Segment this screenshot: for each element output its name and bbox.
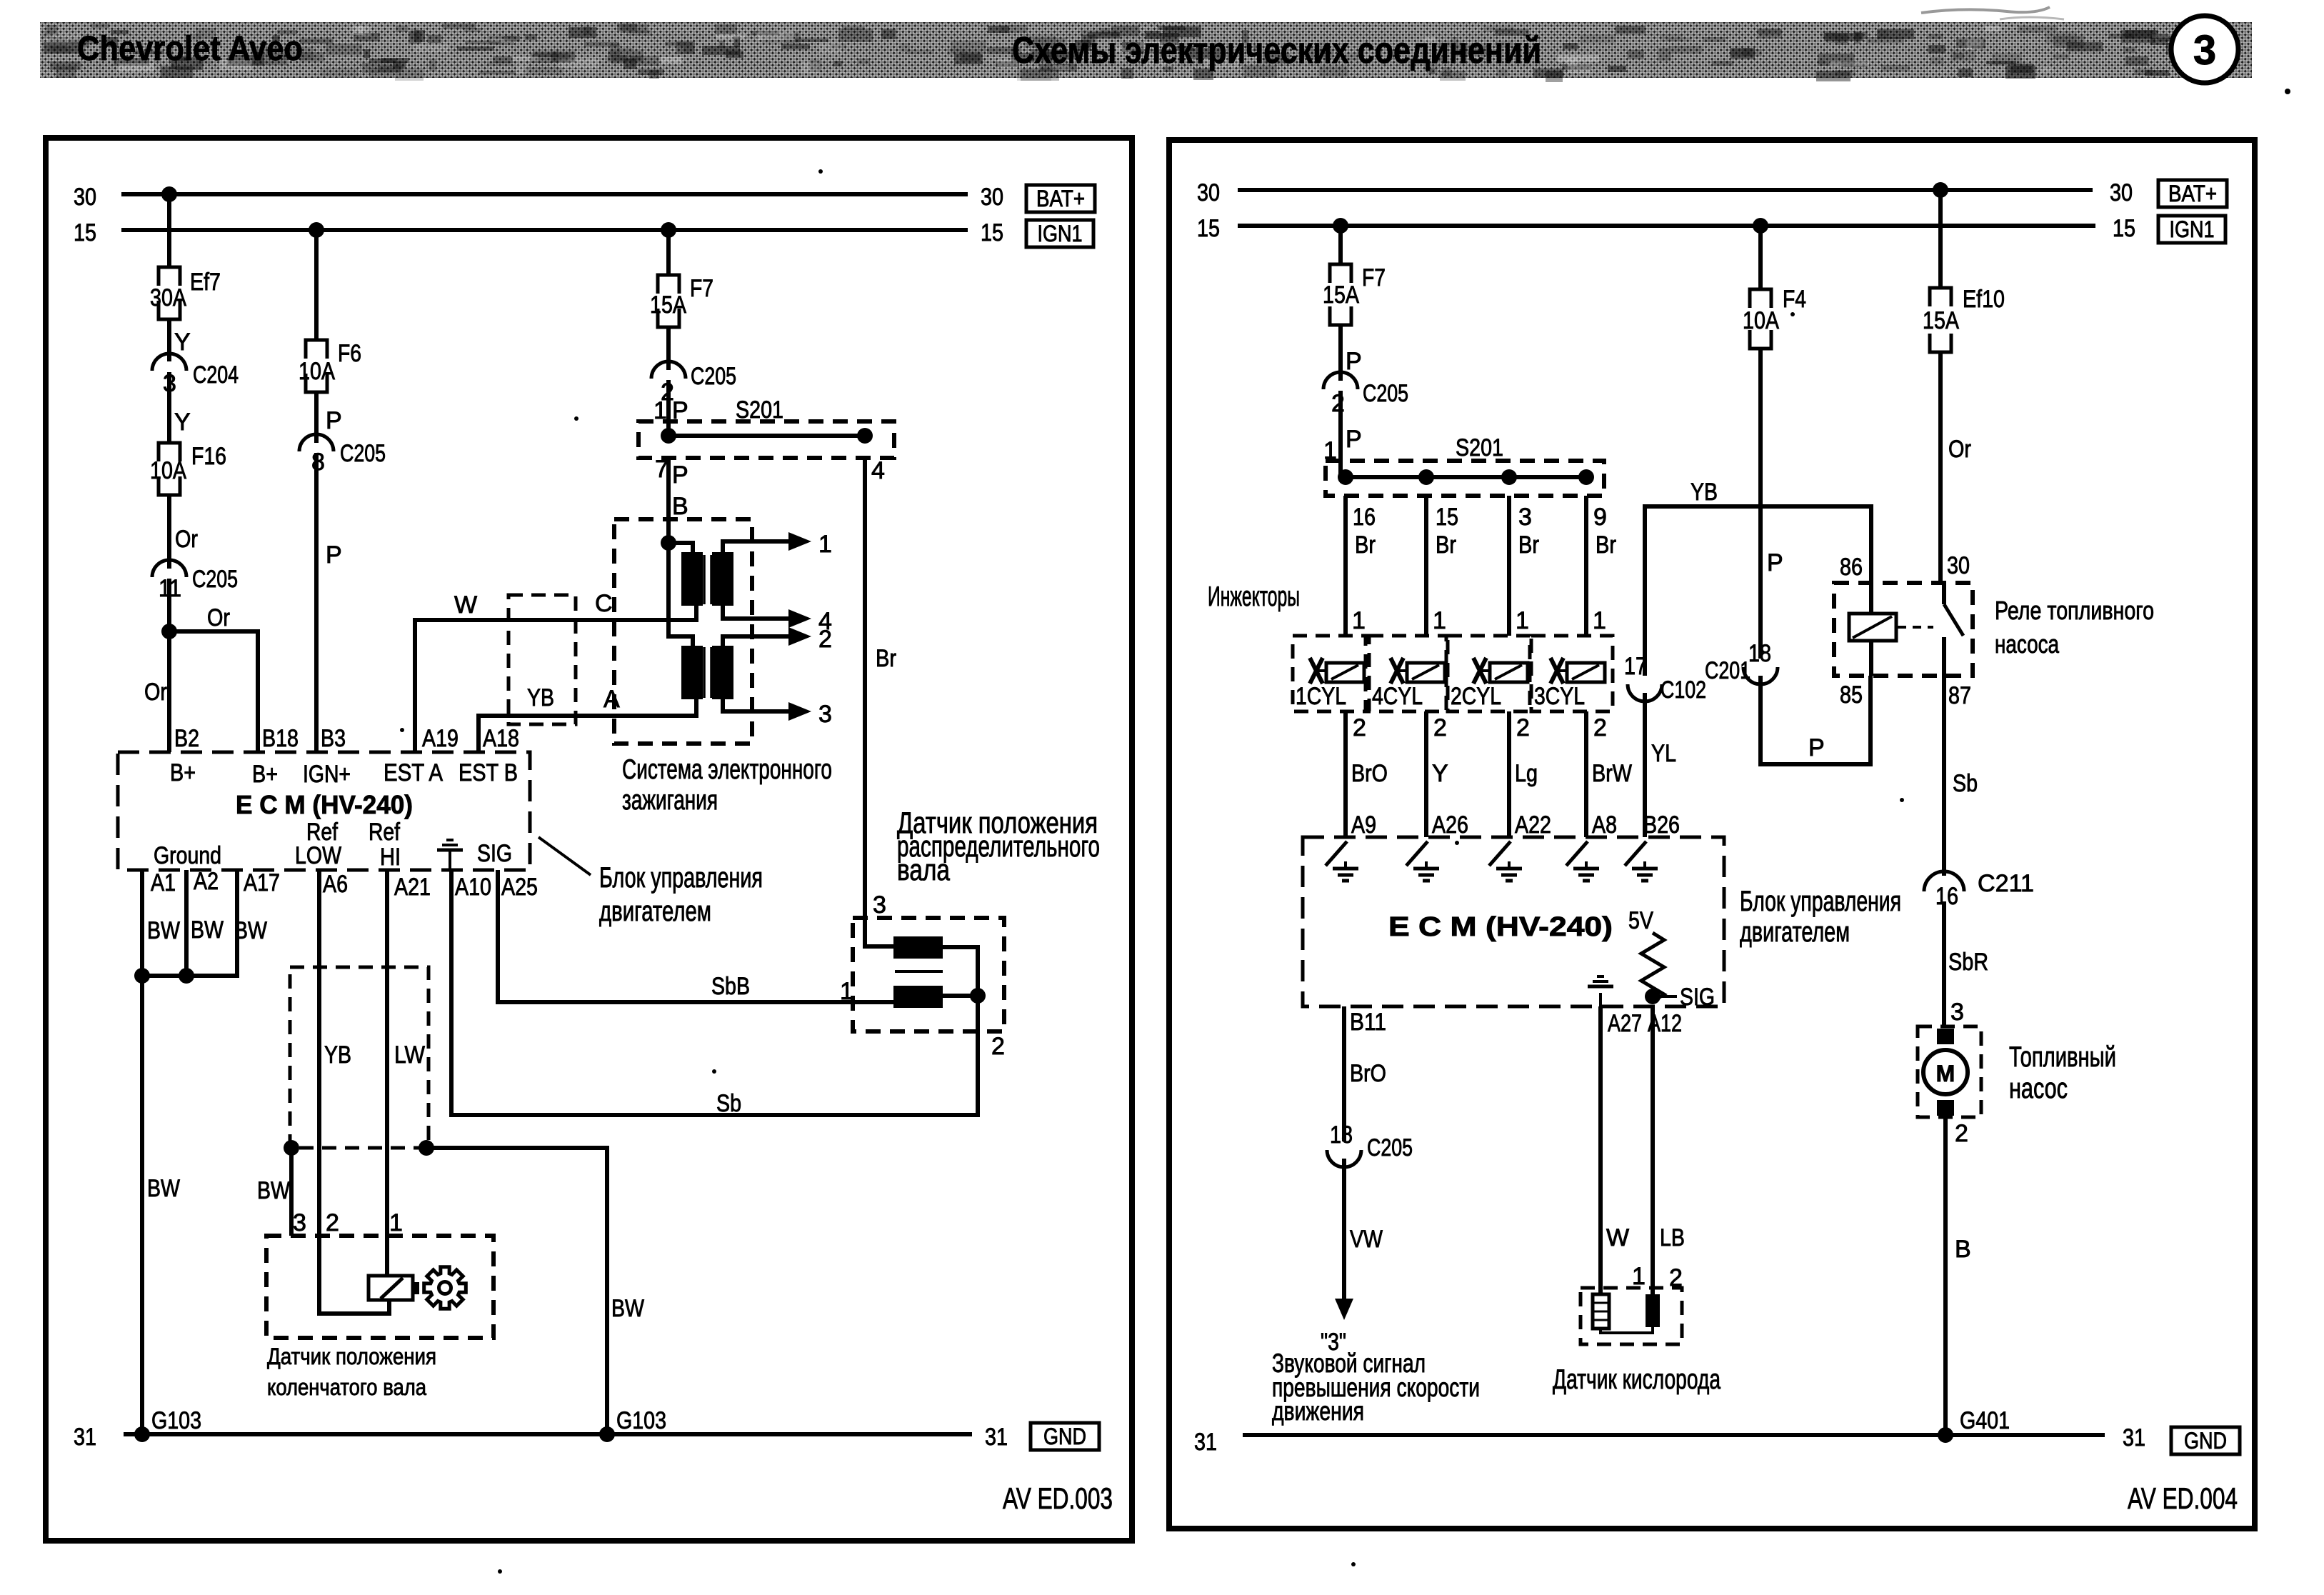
wire P C205 to splice S201 [653,380,688,436]
wire P fuse F6 to C205 [316,392,342,443]
svg-text:3: 3 [293,1209,306,1236]
wire BrO injector 1CYL to ECM A9 [1346,711,1388,839]
ECM driver ground switch A22 [1489,841,1522,881]
wire Br S201 to injector 3CYL [1586,496,1616,636]
svg-text:BW: BW [191,916,224,944]
ECM (HV-240) block (right) [1303,837,1724,1006]
svg-text:B+: B+ [170,759,196,786]
ECM (HV-240) block (left) [118,752,530,871]
svg-text:EST A: EST A [384,759,443,786]
svg-text:1: 1 [1433,607,1446,634]
svg-text:Lg: Lg [1515,760,1538,787]
fuse F7 15A (right) [1323,264,1386,325]
svg-text:3CYL: 3CYL [1534,683,1585,710]
wire Br S201 to injector 4CYL [1426,496,1456,636]
wire P C205 to ECM B3 [316,453,342,752]
svg-text:C205: C205 [192,566,238,593]
wire B fuel pump pin 2 to G401 [1945,1117,1971,1435]
svg-text:A9: A9 [1351,811,1376,839]
svg-text:18: 18 [1330,1121,1353,1149]
bus 31 (left) [74,1424,1008,1451]
svg-text:A21: A21 [394,874,431,901]
wire SbB ECM A25 to camshaft sensor pin 1 [498,870,893,1005]
svg-text:LW: LW [394,1041,425,1069]
fuel pump relay switch [1898,583,1963,676]
injector 2CYL [1448,636,1530,711]
connector C205 pin 11 [152,560,238,602]
svg-text:Or: Or [175,526,198,553]
svg-text:2CYL: 2CYL [1451,683,1501,710]
node IGN1 (right) [2158,216,2225,243]
svg-text:A27: A27 [1608,1010,1642,1037]
fuse F4 10A [1743,286,1806,349]
header bar [40,7,2252,82]
connector C205 pin 2 (right) [1323,372,1408,417]
wire B S201-7 to ignition coil [668,458,688,543]
svg-text:VW: VW [1350,1226,1383,1253]
svg-text:30: 30 [981,184,1003,211]
svg-text:Датчик кислорода: Датчик кислорода [1553,1364,1721,1395]
svg-text:двигателем: двигателем [1740,916,1850,948]
svg-text:SIG: SIG [1680,984,1715,1011]
svg-text:SIG: SIG [477,840,512,867]
svg-text:87: 87 [1948,682,1971,709]
caption: Реле топливного насоса [1995,596,2154,659]
wire Br S201-4 to camshaft sensor pin 3 [865,458,896,946]
svg-text:S201: S201 [736,396,783,424]
svg-text:B26: B26 [1643,811,1680,839]
svg-text:YB: YB [1691,479,1718,506]
label AV ED.003 [1003,1481,1113,1515]
svg-text:31: 31 [985,1424,1008,1451]
junction node (Or split) [161,624,177,639]
svg-text:3: 3 [2193,27,2216,74]
svg-text:Y: Y [174,329,191,356]
crank position sensor [266,1209,494,1338]
svg-text:P: P [1808,734,1825,761]
wire P fuse F4 to C201 [1760,349,1783,659]
svg-text:LB: LB [1660,1224,1685,1251]
wire Or junction to ECM B2 [144,631,169,752]
svg-text:5V: 5V [1628,907,1653,934]
svg-text:Or: Or [1948,436,1971,463]
svg-text:F7: F7 [1362,264,1386,291]
svg-text:Br: Br [1355,531,1376,559]
svg-text:Y: Y [174,409,191,436]
svg-text:C201: C201 [1705,657,1750,684]
wire Br S201 to injector 2CYL [1509,496,1539,636]
svg-text:10A: 10A [1743,307,1779,334]
pointer line to ECM caption (left) [539,837,591,875]
svg-text:15: 15 [1436,504,1458,531]
ECM pin labels top (left) [170,725,519,788]
svg-text:A6: A6 [323,871,348,898]
shield box crank sensor wires [284,967,434,1156]
ECM pin labels bottom (left) [147,868,538,944]
svg-text:Ef7: Ef7 [190,269,221,296]
wire Y fuse Ef7 to C204 [169,319,191,361]
svg-text:Ref: Ref [369,819,400,846]
svg-text:2: 2 [1331,390,1345,417]
svg-text:1: 1 [840,978,853,1005]
svg-text:IGN1: IGN1 [2170,216,2215,242]
svg-text:C211: C211 [1978,870,2034,897]
caption: Топливный насос [2009,1041,2116,1104]
wire bus15 to fuse F7 (right) [1333,218,1348,264]
svg-text:AV ED.004: AV ED.004 [2128,1481,2238,1515]
svg-text:BrO: BrO [1350,1060,1386,1087]
wire A ECM A18 (EST B) to coil [479,686,696,752]
wire YL ECM B26 to C102 [1643,693,1680,839]
svg-text:IGN+: IGN+ [303,761,351,788]
ECM driver ground switch B26 [1625,841,1658,881]
fuse F6 10A [299,340,361,392]
svg-text:F16: F16 [191,443,226,470]
ECM ground symbol (right) [1588,976,1613,1006]
svg-text:насос: насос [2009,1073,2068,1104]
svg-text:85: 85 [1840,681,1863,709]
svg-text:YB: YB [324,1041,351,1069]
fuse F16 10A [150,443,226,495]
connector C205 pin 18 [1327,1121,1413,1167]
svg-text:A19: A19 [422,725,459,752]
caption: Система электронного зажигания [622,754,832,816]
svg-text:GND: GND [1043,1424,1086,1449]
fuse Ef10 15A [1923,286,2005,352]
wire Or fuse F16 to C205 [169,495,198,569]
svg-text:Br: Br [1596,531,1616,559]
wire Lg injector 2CYL to ECM A22 [1509,711,1551,839]
injector 3CYL [1531,636,1613,711]
svg-text:C205: C205 [340,440,386,467]
svg-text:3: 3 [873,891,886,919]
svg-text:2: 2 [1516,714,1530,741]
svg-text:1CYL: 1CYL [1296,683,1346,710]
bus 15 (right) [1197,215,2135,242]
ECM driver ground switch A8 [1566,841,1599,881]
wire W ECM A27 to oxygen sensor pin 1 [1601,1006,1646,1294]
svg-text:GND: GND [2184,1428,2227,1454]
svg-text:9: 9 [1593,504,1607,531]
bus 15 (left) [74,219,1003,246]
svg-text:31: 31 [74,1424,96,1451]
wire BW ECM A1 to G103 [142,870,180,1434]
svg-text:G103: G103 [616,1407,666,1434]
svg-text:C: C [595,590,613,617]
svg-text:Схемы электрических соединений: Схемы электрических соединений [1012,30,1541,71]
fuse F7 15A [650,275,713,327]
caption: Блок управления двигателем (right) [1740,886,1901,948]
svg-text:15: 15 [1197,215,1220,242]
svg-text:2: 2 [818,626,832,653]
svg-text:YB: YB [527,684,554,711]
wire bus15 to fuse F7 [661,222,676,275]
svg-text:Ef10: Ef10 [1963,286,2005,313]
svg-text:Or: Or [144,679,167,706]
svg-text:движения: движения [1272,1396,1364,1426]
caption: Датчик кислорода [1553,1364,1721,1395]
svg-text:A2: A2 [194,868,219,895]
svg-text:A: A [603,686,620,713]
ignition coil unit cyl 2-3 [668,543,733,699]
svg-text:LOW: LOW [295,842,341,869]
svg-text:A22: A22 [1515,811,1551,839]
svg-text:Br: Br [1518,531,1539,559]
node GND (right) [2171,1427,2240,1454]
svg-text:30: 30 [2110,179,2133,206]
wire BW ECM A17 to ground bundle [134,870,237,984]
svg-text:SbR: SbR [1948,949,1988,976]
svg-text:SbB: SbB [711,973,750,1000]
svg-text:коленчатого вала: коленчатого вала [267,1374,426,1400]
svg-text:F7: F7 [690,275,713,302]
svg-text:P: P [1767,549,1783,576]
svg-text:C205: C205 [691,363,736,390]
svg-text:10A: 10A [299,358,335,385]
svg-text:P: P [326,407,342,434]
svg-text:A26: A26 [1432,811,1468,839]
svg-text:YL: YL [1651,740,1676,767]
spark output 4 [723,606,832,635]
svg-text:W: W [454,591,477,619]
svg-text:B2: B2 [174,725,199,752]
node BAT+ (left) [1026,185,1095,212]
svg-text:2: 2 [326,1209,339,1236]
wire YB C102 to fuel pump relay pin 86 [1645,479,1871,676]
svg-text:Инжекторы: Инжекторы [1208,581,1300,612]
svg-text:P: P [1346,426,1362,453]
wire bus30 to fuse Ef7 [161,186,177,267]
svg-text:Ground: Ground [154,842,221,869]
svg-text:A25: A25 [501,874,538,901]
label AV ED.004 [2128,1481,2238,1515]
wire LW ECM A21 to crank sensor pin 1 [387,870,425,1276]
wire BW shield to crank sensor pin 3 [257,1148,291,1236]
wire bus15 to fuse F4 [1753,218,1768,289]
wire BW shield to G103 (right leg) [426,1148,644,1434]
right diagram frame [1169,140,2255,1529]
header title left: Chevrolet Aveo [77,30,303,68]
svg-text:2: 2 [991,1033,1005,1060]
svg-text:15A: 15A [650,291,686,319]
svg-text:B18: B18 [262,725,299,752]
svg-text:15: 15 [981,219,1003,246]
wire Y C204 to fuse F16 [169,372,191,443]
node IGN1 (left) [1026,220,1093,247]
camshaft position sensor [853,891,1004,1031]
left diagram frame [46,138,1132,1541]
svg-text:F6: F6 [338,340,361,367]
svg-text:Y: Y [1432,760,1448,787]
svg-text:B+: B+ [252,761,278,788]
caption: Инжекторы [1208,581,1300,612]
svg-text:1: 1 [1632,1263,1646,1290]
svg-text:насоса: насоса [1995,629,2060,659]
ECM driver ground switch A26 [1406,841,1439,881]
svg-text:AV ED.003: AV ED.003 [1003,1481,1113,1515]
ignition coil assembly box [614,519,752,744]
svg-text:HI: HI [380,844,401,871]
wire Or branch to ECM B18 [169,604,258,752]
wire P C201 to fuel pump relay pin 85 [1760,676,1870,764]
svg-text:C204: C204 [193,361,239,389]
svg-text:4CYL: 4CYL [1372,683,1423,710]
bus 31 (right) [1194,1424,2145,1456]
svg-text:вала: вала [897,853,950,886]
svg-text:2: 2 [1433,714,1447,741]
connector C211 pin 16 [1924,870,2034,910]
svg-text:16: 16 [1935,883,1958,910]
svg-text:3: 3 [1518,504,1532,531]
svg-text:Br: Br [1436,531,1456,559]
oxygen sensor [1581,1288,1682,1344]
svg-text:P: P [1346,348,1362,375]
node GND (left) [1031,1423,1099,1450]
svg-text:2: 2 [1593,714,1607,741]
svg-text:E C M (HV-240): E C M (HV-240) [1388,912,1613,942]
svg-text:BW: BW [147,917,180,944]
page number circle 3 [2171,16,2238,83]
svg-text:W: W [1606,1224,1629,1251]
svg-text:C205: C205 [1367,1134,1413,1161]
svg-text:S201: S201 [1456,434,1503,461]
header title center: Схемы электрических соединений [1012,30,1541,71]
svg-text:31: 31 [2123,1424,2145,1451]
wire LB ECM A12 to oxygen sensor pin 2 [1648,1006,1685,1294]
caption: Датчик положения распределительного вала [897,806,1100,886]
caption: Звуковой сигнал превышения скорости движения [1272,1349,1480,1426]
svg-text:C205: C205 [1363,380,1408,407]
svg-text:Датчик положения: Датчик положения [267,1344,436,1369]
svg-text:1: 1 [1352,607,1366,634]
svg-text:Sb: Sb [1953,770,1978,797]
wire Sb relay pin 87 to C211 [1944,676,1978,876]
svg-text:10A: 10A [150,457,186,484]
splice S201 (right) [1326,434,1607,531]
wire BrO ECM B11 to C205-18 [1344,1006,1386,1141]
connector C102 pin 17 [1624,653,1706,704]
svg-text:A1: A1 [151,869,176,896]
caption: Датчик положения коленчатого вала [267,1344,436,1400]
svg-text:A18: A18 [483,725,519,752]
ground node G401 [1938,1407,2010,1443]
wire Or C205 to junction [167,579,171,631]
svg-text:2: 2 [1353,714,1366,741]
svg-text:M: M [1936,1061,1955,1086]
ECM ground symbol (left) [437,840,463,869]
caption: Блок управления двигателем (left) [599,862,763,927]
svg-text:BW: BW [257,1177,290,1204]
svg-text:BW: BW [147,1175,180,1202]
svg-text:A10: A10 [455,874,491,901]
wire VW to overspeed buzzer [1321,1159,1383,1356]
spark output 2 [723,626,832,653]
svg-text:2: 2 [1955,1120,1968,1147]
svg-text:18: 18 [1748,640,1771,667]
svg-text:Sb: Sb [716,1090,741,1117]
svg-text:86: 86 [1840,554,1863,581]
svg-text:15: 15 [2113,215,2135,242]
svg-text:G103: G103 [151,1407,201,1434]
svg-text:Реле топливного: Реле топливного [1995,596,2154,625]
ground node G103 (left) [134,1407,201,1442]
svg-text:B11: B11 [1350,1009,1386,1036]
svg-text:E C M (HV-240): E C M (HV-240) [236,790,413,819]
svg-text:B3: B3 [321,725,346,752]
svg-text:15A: 15A [1923,307,1959,334]
svg-text:1: 1 [818,531,832,558]
svg-text:31: 31 [1194,1429,1217,1456]
svg-text:P: P [326,541,342,569]
svg-text:3: 3 [1950,999,1964,1026]
fuel pump relay coil [1849,583,1896,676]
svg-text:Блок управления: Блок управления [599,862,763,894]
wire BrW injector 3CYL to ECM A8 [1586,711,1632,839]
wire W ECM A19 (EST A) to coil [415,590,696,752]
fuel pump motor [1918,1026,1981,1117]
ground node G103 (second) [599,1407,666,1442]
wire P fuse F7 to C205 (right) [1341,325,1362,381]
splice S201 (left) [638,396,894,489]
crank sensor gear icon [424,1267,466,1309]
svg-text:16: 16 [1353,504,1376,531]
ECM internal resistor 5V [1641,933,1664,1001]
svg-text:C102: C102 [1661,676,1706,704]
wire Sb camshaft sensor pin 2 to ECM A10 [451,870,1005,1117]
svg-text:A8: A8 [1592,811,1617,839]
wire Y injector 4CYL to ECM A26 [1426,711,1468,839]
svg-text:1: 1 [1516,607,1529,634]
svg-text:A17: A17 [244,869,280,896]
svg-text:1: 1 [1593,607,1606,634]
connector C205 pin 8 [299,434,386,476]
svg-text:Br: Br [876,645,896,672]
svg-text:IGN1: IGN1 [1038,221,1083,246]
connector C201 pin 18 [1705,640,1778,684]
wire SbR C211 to fuel pump pin 3 [1944,901,1988,1026]
wire BW ECM A2 to ground bundle [179,870,194,984]
svg-text:15: 15 [74,219,96,246]
shield box YB (EST B wire) [509,595,576,724]
svg-text:A12: A12 [1648,1010,1682,1037]
svg-text:B: B [672,493,688,520]
wire Or fuse Ef10 to relay pin 30 [1940,352,1971,583]
svg-text:30: 30 [1197,179,1220,206]
wire bus30 to fuse Ef10 [1933,182,1948,288]
svg-text:Or: Or [207,604,230,631]
spark output 1 [723,531,832,558]
svg-text:двигателем: двигателем [599,896,711,927]
svg-text:1: 1 [389,1209,403,1236]
wire fuse F7 to C205 [666,327,671,370]
wire bus15 to fuse F6 [309,222,324,340]
svg-text:BAT+: BAT+ [1036,186,1085,211]
svg-text:BrO: BrO [1351,760,1388,787]
wire YB ECM A6 to crank sensor pin 2 [319,870,389,1314]
svg-text:P: P [672,461,688,489]
spark output 3 [723,699,832,728]
ECM SIG node [1645,984,1715,1011]
svg-text:BW: BW [611,1295,644,1322]
ECM driver ground switch A9 [1326,841,1358,881]
connector C205 pin 2 [651,361,736,406]
ignition coil unit cyl 1-4 [661,535,733,606]
injector 4CYL [1369,636,1446,711]
svg-text:B: B [1955,1236,1971,1263]
svg-text:зажигания: зажигания [622,785,718,816]
svg-text:30A: 30A [150,284,186,311]
svg-text:4: 4 [871,457,885,484]
